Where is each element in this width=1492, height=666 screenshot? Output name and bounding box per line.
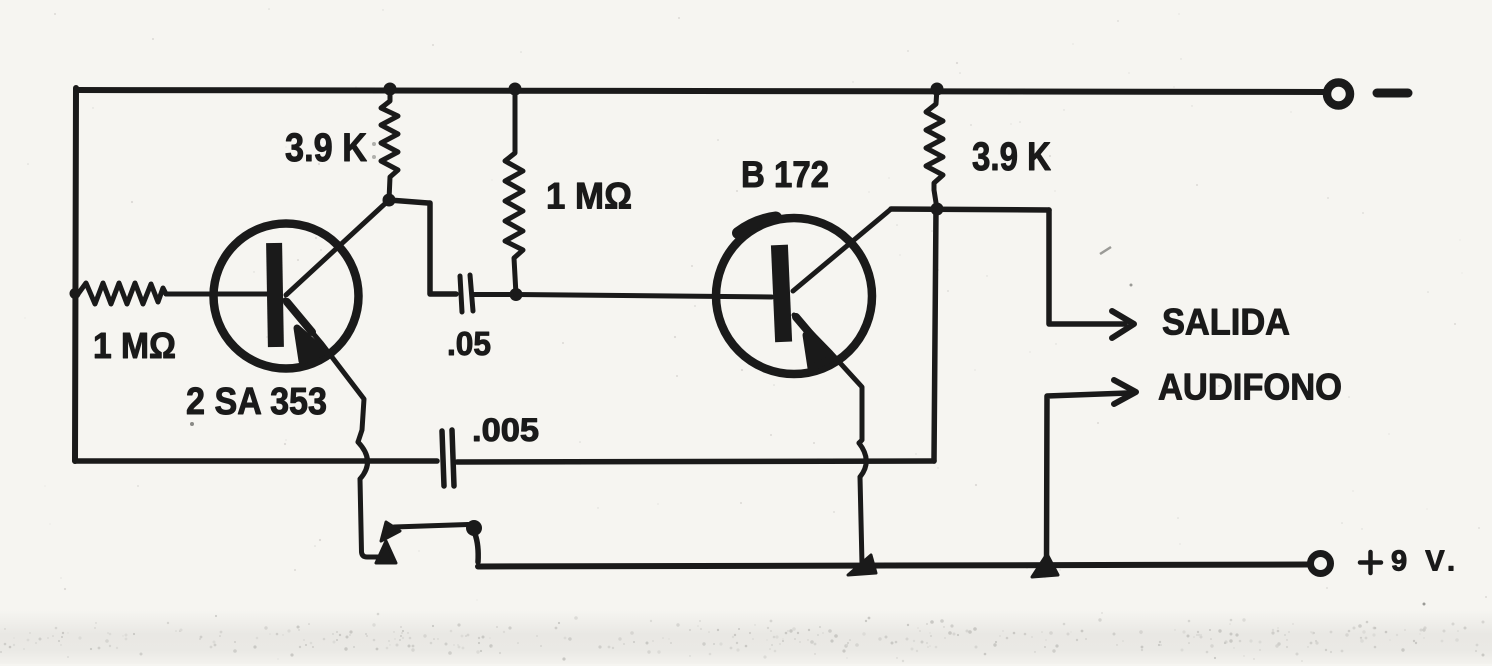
transistor Q2 emitter arrow xyxy=(806,335,833,368)
capacitor C1 .05 left plate xyxy=(460,276,462,312)
faint scan marks xyxy=(190,142,1426,606)
transistor Q1 collector lead xyxy=(286,200,389,295)
node Q2 emitter / bottom rail xyxy=(848,555,876,575)
node top rail / R4 xyxy=(931,83,944,96)
resistor R1 1M horizontal xyxy=(78,283,166,304)
transistor Q1 emitter arrow xyxy=(297,328,324,361)
svg-text:1 MΩ: 1 MΩ xyxy=(93,325,176,366)
wire Q1 collector to C1 xyxy=(389,200,456,294)
wire C2 right to vertical xyxy=(457,461,934,462)
svg-text:.05: .05 xyxy=(447,325,491,362)
svg-text:2 SA 353: 2 SA 353 xyxy=(186,381,327,423)
resistor R4 3.9K vertical xyxy=(926,88,943,209)
svg-text:B 172: B 172 xyxy=(741,154,829,195)
wire Q1 emitter to jack xyxy=(360,479,388,557)
svg-text:3.9 K: 3.9 K xyxy=(972,135,1051,179)
wire Q2 emitter hop xyxy=(859,443,866,477)
wire bottom rail xyxy=(478,565,1308,567)
node top rail / R2 xyxy=(384,83,397,96)
wire jack to bottom rail xyxy=(475,534,478,562)
wire salida branch xyxy=(1049,210,1125,324)
wire Q2 base lead xyxy=(516,295,772,298)
node top rail / R3 xyxy=(509,83,522,96)
wire Q2 emitter to bottom rail xyxy=(860,477,862,564)
svg-text:1 MΩ: 1 MΩ xyxy=(546,176,632,217)
jack J1 lower contact arrow xyxy=(376,541,396,563)
transistor Q2 circle xyxy=(716,218,872,374)
transistor Q2 collector lead xyxy=(793,209,891,291)
node R3 bottom xyxy=(510,288,523,301)
resistor R2 3.9K vertical xyxy=(381,88,398,200)
label +9V xyxy=(1360,552,1381,573)
wire bottom-left horizontal xyxy=(75,458,437,464)
jack J1 contact dot xyxy=(466,520,482,536)
wire Q2 collector horizontal xyxy=(891,209,1049,210)
node Q2 collector junction xyxy=(931,203,944,216)
arrow audifono xyxy=(1114,380,1136,404)
label minus xyxy=(1377,89,1408,98)
svg-text:AUDIFONO: AUDIFONO xyxy=(1158,367,1342,408)
terminal negative xyxy=(1327,83,1350,106)
node left-rail/R1 xyxy=(70,288,81,299)
wire node to C2 vertical xyxy=(934,209,936,461)
transistor Q2 emitter lead xyxy=(794,315,862,443)
transistor Q2 base bar xyxy=(771,245,792,343)
svg-text:3.9 K: 3.9 K xyxy=(285,126,367,170)
terminal +9V xyxy=(1311,554,1331,574)
node audifono / bottom rail xyxy=(1032,554,1058,577)
jack J1 upper contact arrow xyxy=(381,522,400,541)
capacitor C2 .005 right plate xyxy=(452,430,454,486)
transistor Q1 emitter lead xyxy=(285,300,364,442)
node Q1 collector junction xyxy=(383,194,396,207)
capacitor C1 .05 right plate xyxy=(470,275,473,311)
svg-text:SALIDA: SALIDA xyxy=(1162,302,1290,343)
transistor Q1 base bar xyxy=(266,243,284,347)
svg-text:.005: .005 xyxy=(472,412,539,448)
wire top rail xyxy=(76,90,1325,92)
resistor R3 1M vertical xyxy=(505,88,523,295)
wire audifono branch xyxy=(1047,393,1129,567)
wire C1 to node xyxy=(474,292,516,297)
jack J1 upper contact line xyxy=(394,525,468,528)
wire left rail xyxy=(75,88,76,461)
capacitor C2 .005 left plate xyxy=(442,431,444,486)
transistor Q1 circle xyxy=(214,224,359,369)
wire Q1 emitter hop xyxy=(358,442,368,479)
wire Q1 base lead xyxy=(166,292,268,297)
arrow salida xyxy=(1112,311,1134,338)
